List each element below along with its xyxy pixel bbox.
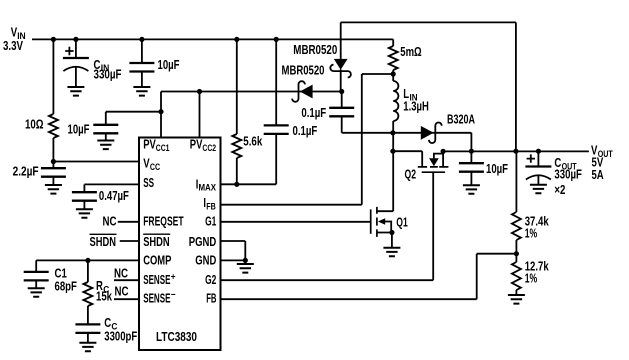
svg-text:−: − (171, 290, 176, 301)
svg-text:10µF: 10µF (68, 122, 90, 137)
svg-text:SENSE: SENSE (143, 272, 170, 287)
svg-text:15k: 15k (96, 288, 113, 303)
svg-text:NC: NC (114, 265, 128, 280)
svg-text:10µF: 10µF (158, 57, 180, 72)
svg-text:330µF: 330µF (554, 167, 582, 182)
svg-text:NC: NC (115, 284, 129, 299)
svg-text:68pF: 68pF (55, 278, 77, 293)
svg-text:2.2µF: 2.2µF (13, 164, 39, 179)
svg-text:10Ω: 10Ω (25, 117, 44, 132)
svg-text:MAX: MAX (199, 183, 217, 194)
svg-text:LTC3830: LTC3830 (156, 329, 197, 344)
svg-text:0.1µF: 0.1µF (293, 123, 318, 138)
svg-text:FB: FB (206, 291, 216, 306)
svg-text:0.47µF: 0.47µF (99, 188, 129, 203)
svg-text:5mΩ: 5mΩ (400, 44, 421, 59)
svg-text:G1: G1 (205, 213, 216, 228)
svg-text:MBR0520: MBR0520 (293, 42, 337, 57)
svg-text:5.6k: 5.6k (243, 134, 263, 149)
svg-text:CC1: CC1 (156, 143, 170, 154)
svg-text:1.3µH: 1.3µH (403, 98, 429, 113)
svg-text:Q1: Q1 (396, 215, 408, 230)
svg-text:GND: GND (195, 253, 216, 268)
svg-text:NC: NC (103, 213, 117, 228)
svg-text:COMP: COMP (143, 253, 171, 268)
svg-text:10µF: 10µF (486, 161, 508, 176)
svg-text:SS: SS (143, 175, 154, 190)
svg-text:5A: 5A (592, 167, 605, 182)
svg-text:3.3V: 3.3V (3, 38, 23, 53)
svg-text:CC2: CC2 (202, 143, 216, 154)
svg-text:330µF: 330µF (94, 67, 122, 82)
svg-text:PV: PV (190, 136, 203, 151)
svg-text:Q2: Q2 (405, 166, 417, 181)
svg-text:PV: PV (143, 136, 156, 151)
svg-text:3300pF: 3300pF (104, 328, 137, 343)
svg-text:V: V (143, 156, 150, 171)
svg-text:+: + (171, 272, 176, 283)
svg-text:FB: FB (206, 201, 216, 212)
svg-text:CC: CC (150, 162, 160, 173)
svg-text:SENSE: SENSE (143, 291, 170, 306)
svg-text:0.1µF: 0.1µF (301, 105, 326, 120)
svg-text:1%: 1% (525, 270, 538, 285)
svg-text:FREQSET: FREQSET (143, 213, 183, 228)
svg-text:PGND: PGND (189, 234, 217, 249)
svg-text:SHDN: SHDN (90, 234, 117, 249)
svg-text:G2: G2 (205, 272, 216, 287)
svg-text:×2: ×2 (554, 182, 565, 197)
svg-text:SHDN: SHDN (143, 234, 170, 249)
svg-text:1%: 1% (525, 225, 538, 240)
svg-text:B320A: B320A (447, 112, 475, 127)
svg-text:MBR0520: MBR0520 (282, 63, 325, 78)
